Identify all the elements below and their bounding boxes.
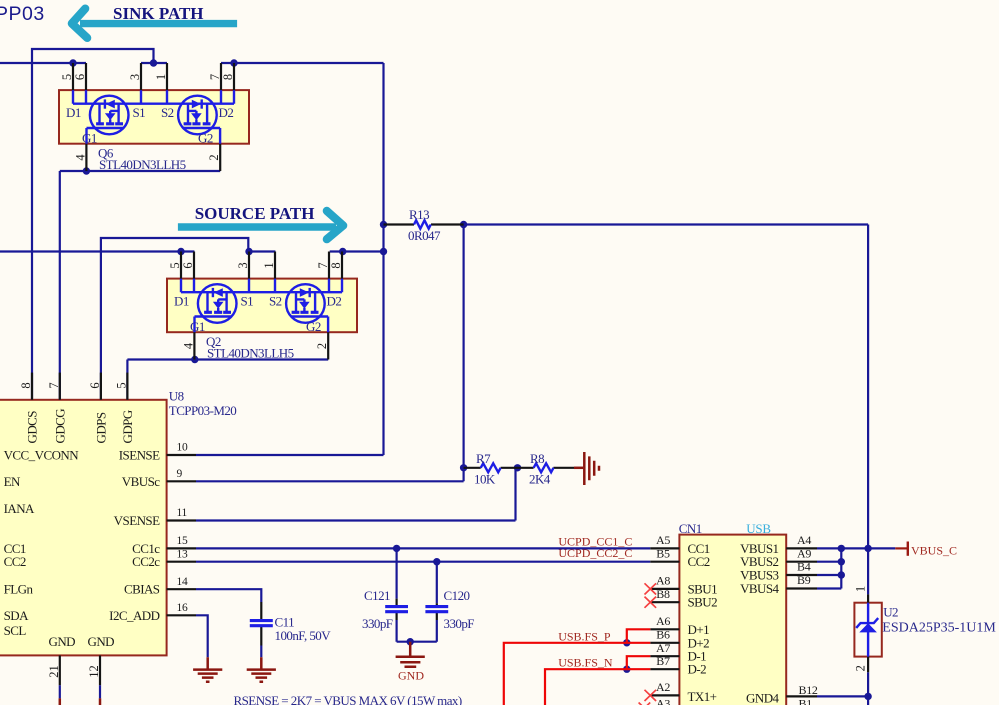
svg-text:PP03: PP03 [0, 3, 45, 25]
svg-text:B6: B6 [656, 628, 670, 642]
wire Q2 gate bus GDPG [127, 360, 328, 400]
svg-text:S2: S2 [161, 105, 174, 120]
svg-text:6: 6 [181, 262, 195, 268]
node R13 left junction [380, 221, 387, 228]
svg-text:SINK PATH: SINK PATH [113, 4, 204, 23]
svg-text:A6: A6 [656, 614, 670, 628]
svg-text:R13: R13 [409, 207, 429, 222]
capacitor C11 100nF [250, 602, 331, 646]
node Q2 gate junction [191, 356, 198, 363]
wire Q6 gate bus GDCG [60, 171, 220, 400]
ground under C11 [247, 657, 276, 682]
svg-text:GDPG: GDPG [120, 410, 135, 443]
wire GND4 row [817, 695, 868, 697]
wire U2 column [867, 548, 869, 705]
pin 13 CC2c [167, 561, 196, 563]
wire Q2 D1 top [0, 250, 194, 252]
pin B4 VBUS3 [786, 574, 817, 576]
svg-text:10K: 10K [474, 472, 496, 487]
svg-text:14: 14 [177, 576, 188, 588]
svg-text:USB.FS_P: USB.FS_P [558, 629, 611, 643]
pin B6 D+2 [650, 642, 679, 644]
svg-text:CC2: CC2 [688, 554, 710, 569]
svg-text:GND: GND [49, 634, 76, 649]
wire GDCS staircase to Q6 sources [32, 49, 154, 400]
node VBUS_C junction [864, 545, 871, 552]
svg-text:100nF, 50V: 100nF, 50V [275, 628, 332, 643]
pin A7 D-1 [650, 655, 679, 657]
pin A5 CC1 [650, 547, 679, 549]
wire VBUS1 to VBUS_C [817, 547, 895, 549]
svg-text:USB: USB [746, 521, 771, 536]
svg-text:B9: B9 [797, 573, 811, 587]
svg-text:CN1: CN1 [679, 521, 702, 536]
pin A6 D+1 [650, 628, 679, 630]
svg-text:SDA: SDA [4, 608, 30, 623]
pin A8 SBU1 [650, 588, 679, 590]
svg-text:SBU2: SBU2 [688, 595, 718, 610]
svg-text:9: 9 [177, 468, 183, 480]
svg-text:D-2: D-2 [688, 662, 707, 677]
node VBUS2 junction [838, 558, 845, 565]
svg-text:CBIAS: CBIAS [124, 582, 160, 597]
svg-text:A3: A3 [656, 697, 670, 705]
diode U2 ESDA25P35-1U1M TVS [854, 586, 997, 672]
svg-text:GDCS: GDCS [25, 411, 40, 444]
pin B12 GND4 [786, 695, 817, 697]
svg-text:B5: B5 [656, 546, 670, 560]
svg-text:1: 1 [154, 74, 168, 80]
svg-text:A9: A9 [797, 546, 811, 560]
svg-text:1: 1 [262, 262, 276, 268]
svg-text:G2: G2 [306, 319, 321, 334]
pin 14 CBIAS [167, 588, 196, 590]
net label VBUS_C [895, 542, 957, 558]
wire Q2 D2 to x383 [330, 250, 384, 252]
svg-text:A4: A4 [797, 533, 811, 547]
pin A9 VBUS2 [786, 561, 817, 563]
node Q2 D1 junction [177, 248, 184, 255]
svg-text:GDPS: GDPS [93, 412, 108, 443]
transistor Q2 STL40DN3LLH5 dual N-MOSFET [167, 252, 357, 361]
svg-text:B7: B7 [656, 654, 670, 668]
svg-text:B12: B12 [799, 683, 818, 697]
svg-text:A7: A7 [656, 641, 670, 655]
SOURCE PATH arrow [178, 204, 343, 239]
wire CBIAS to C11 [196, 589, 261, 657]
pin 11 VSENSE [167, 519, 196, 521]
node D- junction [623, 666, 630, 673]
wire R13 right to R7 [463, 225, 465, 482]
svg-text:SCL: SCL [4, 623, 27, 638]
node caps gnd junction [407, 638, 414, 645]
wire Q6 S1S2 bridge [141, 62, 167, 64]
svg-text:12: 12 [87, 665, 101, 678]
svg-text:D1: D1 [66, 105, 81, 120]
op-amp U8 TCPP03-M20 controller [0, 373, 236, 686]
svg-text:I2C_ADD: I2C_ADD [109, 608, 159, 623]
svg-text:2: 2 [207, 154, 221, 160]
node Q6 D2 junction [230, 59, 237, 66]
node R13 right junction [460, 221, 467, 228]
pin 21 GND stub [59, 655, 61, 685]
svg-text:TX1+: TX1+ [688, 689, 717, 704]
svg-text:FLGn: FLGn [4, 582, 34, 597]
wire GND pin 12 [99, 685, 101, 698]
wire C120 leg [436, 562, 438, 642]
wire caps to GND [397, 641, 437, 643]
pin 8 GDCS stub [31, 373, 33, 400]
node Q2 S junction [245, 248, 252, 255]
svg-text:0R047: 0R047 [408, 228, 441, 243]
wire VBUSc [196, 480, 464, 482]
wire Q6 D1 top [0, 62, 86, 64]
svg-text:7: 7 [208, 74, 222, 80]
wire GDPS staircase to Q2 sources [101, 238, 248, 400]
svg-text:5: 5 [168, 262, 182, 268]
node VBUS3 junction [838, 571, 845, 578]
transistor Q6 STL40DN3LLH5 dual N-MOSFET [59, 63, 249, 172]
svg-text:S1: S1 [133, 105, 146, 120]
svg-text:8: 8 [329, 262, 343, 268]
svg-text:S1: S1 [241, 294, 254, 309]
svg-text:D2: D2 [327, 294, 342, 309]
svg-text:U8: U8 [169, 389, 184, 404]
svg-text:G1: G1 [190, 319, 205, 334]
svg-text:2: 2 [854, 665, 868, 671]
pin B8 SBU2 [650, 601, 679, 603]
wire CC2c / UCPD_CC2_C [196, 561, 650, 563]
svg-text:A8: A8 [656, 574, 670, 588]
svg-text:VBUSc: VBUSc [122, 474, 160, 489]
svg-text:A2: A2 [656, 680, 670, 694]
svg-text:3: 3 [128, 74, 142, 80]
wire VSENSE [196, 468, 516, 521]
pin 10 ISENSE [167, 454, 196, 456]
resistor R13 0R047 [384, 207, 464, 243]
resistor R8 2K4 [518, 451, 575, 487]
svg-text:VSENSE: VSENSE [114, 513, 160, 528]
wire Q2 S1S2 bridge [249, 250, 275, 252]
svg-text:S2: S2 [269, 294, 282, 309]
ground right-facing after R8 [574, 452, 599, 485]
svg-text:ESDA25P35-1U1M: ESDA25P35-1U1M [882, 621, 996, 636]
pin A4 VBUS1 [786, 547, 817, 549]
pin 5 GDPG stub [126, 373, 128, 400]
capacitor C121 330pF [362, 588, 408, 631]
svg-text:U2: U2 [883, 605, 898, 620]
svg-text:4: 4 [181, 342, 195, 349]
svg-text:C121: C121 [364, 588, 390, 603]
connector CN1 USB type-C [639, 521, 818, 705]
svg-text:D1: D1 [174, 294, 189, 309]
svg-text:2: 2 [315, 343, 329, 349]
pin B7 D-2 [650, 668, 679, 670]
wire I2C_ADD to ground [196, 615, 208, 657]
svg-text:TCPP03-M20: TCPP03-M20 [169, 403, 237, 418]
svg-text:8: 8 [19, 382, 33, 388]
wire USB.FS_N red [545, 656, 650, 705]
svg-text:5: 5 [60, 74, 74, 80]
capacitor C120 330pF [425, 588, 474, 631]
wire USB.FS_P red [504, 629, 651, 705]
node Q6 D1 junction [69, 59, 76, 66]
pin 16 I2C_ADD [167, 614, 196, 616]
svg-text:C120: C120 [444, 588, 470, 603]
svg-text:ISENSE: ISENSE [119, 448, 160, 463]
svg-text:1: 1 [854, 586, 868, 592]
svg-text:G1: G1 [82, 131, 97, 146]
wire ISENSE [196, 454, 384, 456]
svg-text:R7: R7 [476, 451, 491, 466]
pin 12 GND stub [99, 655, 101, 685]
pin 9 VBUSc [167, 480, 196, 482]
ground GND under C121/C120 [396, 642, 425, 683]
wire C121 leg [396, 548, 398, 641]
svg-text:CC2: CC2 [4, 554, 26, 569]
node GND4 junction [864, 693, 871, 700]
svg-text:7: 7 [316, 262, 330, 268]
svg-text:7: 7 [47, 382, 61, 388]
node VBUS1 junction [838, 545, 845, 552]
svg-text:3: 3 [236, 262, 250, 268]
svg-text:8: 8 [221, 74, 235, 80]
pin 7 GDCG stub [59, 373, 61, 400]
pin 15 CC1c [167, 547, 196, 549]
svg-text:VBUS_C: VBUS_C [911, 543, 957, 557]
svg-text:EN: EN [4, 474, 21, 489]
wire R13 right to VBUS column [464, 223, 868, 225]
svg-text:STL40DN3LLH5: STL40DN3LLH5 [99, 157, 186, 172]
wire VBUS column x868 [867, 225, 869, 549]
ground tails pins 21/12 [60, 698, 100, 705]
wire GND pin 21 [59, 685, 61, 698]
svg-text:4: 4 [73, 154, 87, 161]
svg-text:16: 16 [177, 602, 188, 614]
svg-text:GDCG: GDCG [52, 409, 67, 444]
svg-text:VCC_VCONN: VCC_VCONN [4, 448, 80, 463]
svg-text:B1: B1 [799, 696, 813, 705]
svg-text:6: 6 [73, 74, 87, 80]
node R7-R8 junction [514, 464, 521, 471]
svg-text:5: 5 [115, 382, 129, 388]
node Q6 S junction [150, 59, 157, 66]
pin A2 TX1+ [650, 694, 679, 696]
wire Q6 D2 to R13 column [221, 62, 384, 64]
svg-text:A5: A5 [656, 533, 670, 547]
pin B9 VBUS4 [786, 587, 817, 589]
pin 6 GDPS stub [100, 373, 102, 400]
node Q2 top right junction [380, 248, 387, 255]
svg-text:330pF: 330pF [444, 616, 475, 631]
svg-text:2K4: 2K4 [529, 472, 551, 487]
resistor R7 10K [464, 451, 518, 487]
wire VBUS2/3/4 merge [817, 548, 841, 588]
svg-text:R8: R8 [530, 451, 544, 466]
svg-text:SOURCE PATH: SOURCE PATH [195, 204, 315, 223]
svg-text:VBUS4: VBUS4 [740, 581, 779, 596]
svg-text:GND: GND [398, 669, 424, 683]
svg-text:UCPD_CC2_C: UCPD_CC2_C [558, 546, 632, 560]
svg-text:330pF: 330pF [362, 616, 393, 631]
svg-text:STL40DN3LLH5: STL40DN3LLH5 [207, 346, 294, 361]
node Q6 gate junction [83, 167, 90, 174]
node C121 junction [393, 545, 400, 552]
svg-text:B4: B4 [797, 560, 811, 574]
svg-text:11: 11 [177, 507, 188, 519]
svg-text:USB.FS_N: USB.FS_N [558, 656, 613, 670]
node Q2 D2 junction [339, 248, 346, 255]
SINK PATH arrow [72, 4, 237, 38]
pin B5 CC2 [650, 561, 679, 563]
node C120 junction [433, 558, 440, 565]
svg-text:10: 10 [177, 442, 188, 454]
ground under I2C_ADD [193, 657, 222, 682]
svg-text:B8: B8 [656, 587, 670, 601]
svg-text:D2: D2 [219, 105, 234, 120]
svg-text:6: 6 [88, 382, 102, 388]
svg-text:GND4: GND4 [746, 690, 780, 705]
svg-text:13: 13 [177, 548, 188, 560]
svg-text:GND: GND [88, 634, 115, 649]
node D+ junction [623, 639, 630, 646]
svg-text:CC2c: CC2c [132, 554, 160, 569]
svg-text:21: 21 [47, 665, 61, 678]
node R7 left junction [460, 464, 467, 471]
svg-text:IANA: IANA [4, 501, 35, 516]
wire vertical x383 ISENSE/R13 [382, 63, 384, 455]
svg-text:G2: G2 [198, 131, 213, 146]
svg-text:15: 15 [177, 535, 188, 547]
wire CC1c / UCPD_CC1_C [196, 547, 650, 549]
svg-text:RSENSE = 2K7 = VBUS MAX 6V (15: RSENSE = 2K7 = VBUS MAX 6V (15W max) [234, 693, 462, 705]
